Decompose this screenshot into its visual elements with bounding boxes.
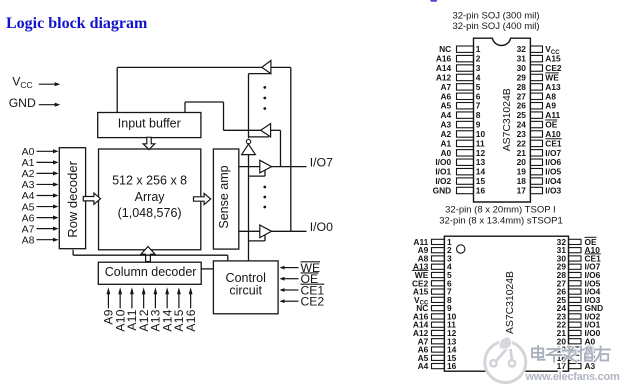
svg-text:www.elecfans.com: www.elecfans.com <box>525 371 620 383</box>
svg-text:Row decoder: Row decoder <box>65 160 80 237</box>
svg-text:(1,048,576): (1,048,576) <box>118 206 182 220</box>
svg-text:32-pin SOJ (300 mil): 32-pin SOJ (300 mil) <box>452 10 539 21</box>
svg-text:Sense amp: Sense amp <box>217 165 231 228</box>
svg-text:A16: A16 <box>184 309 198 331</box>
svg-text:GND: GND <box>9 96 36 110</box>
svg-text:GND: GND <box>433 186 452 196</box>
svg-text:Input buffer: Input buffer <box>118 117 181 131</box>
svg-text:I/O7: I/O7 <box>310 155 333 169</box>
svg-text:Column decoder: Column decoder <box>105 265 197 279</box>
svg-text:AS7C31024B: AS7C31024B <box>505 271 516 334</box>
svg-text:A8: A8 <box>22 234 35 246</box>
svg-text:circuit: circuit <box>229 283 262 297</box>
svg-text:16: 16 <box>476 186 486 196</box>
svg-text:I/O3: I/O3 <box>545 186 561 196</box>
svg-text:CE2: CE2 <box>301 295 325 309</box>
svg-text:AS7C31024B: AS7C31024B <box>502 88 513 151</box>
svg-text:A4: A4 <box>418 361 429 371</box>
svg-text:17: 17 <box>517 186 527 196</box>
svg-text:32-pin (8 x 20mm) TSOP I: 32-pin (8 x 20mm) TSOP I <box>445 205 556 216</box>
svg-text:VCC: VCC <box>12 75 32 91</box>
svg-text:512 x 256 x 8: 512 x 256 x 8 <box>112 174 187 188</box>
svg-text:32-pin (8 x 13.4mm) sTSOP1: 32-pin (8 x 13.4mm) sTSOP1 <box>439 215 563 226</box>
svg-text:16: 16 <box>447 361 457 371</box>
svg-text:I/O0: I/O0 <box>310 220 333 234</box>
svg-text:32-pin SOJ (400 mil): 32-pin SOJ (400 mil) <box>452 21 539 32</box>
svg-text:Array: Array <box>135 190 166 204</box>
